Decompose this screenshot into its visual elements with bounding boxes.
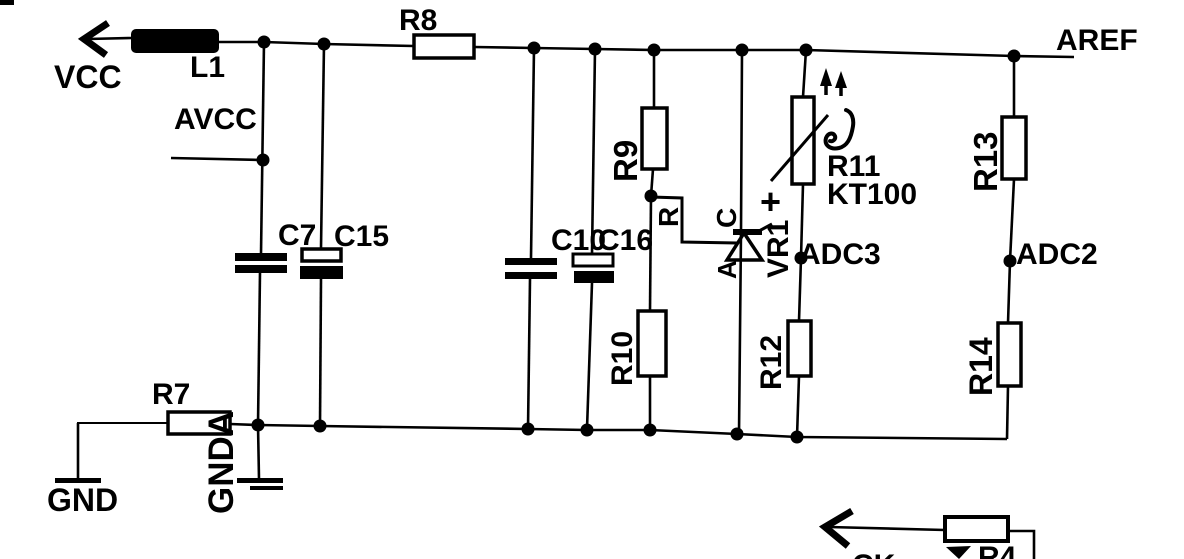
svg-text:GNDA: GNDA [202,411,241,514]
svg-text:KT100: KT100 [827,178,917,211]
svg-text:+: + [760,181,781,222]
svg-text:AVCC: AVCC [174,103,257,136]
svg-text:AREF: AREF [1056,24,1138,57]
svg-text:C16: C16 [598,224,653,257]
svg-text:R8: R8 [399,4,437,37]
svg-text:R10: R10 [606,331,639,386]
svg-text:VR1: VR1 [762,220,795,278]
svg-text:R14: R14 [963,337,999,396]
svg-text:C: C [711,208,742,228]
svg-text:C7: C7 [278,219,316,252]
svg-text:GND: GND [47,482,118,518]
svg-text:A: A [712,260,742,279]
svg-text:CK: CK [852,549,896,559]
svg-text:ADC3: ADC3 [799,238,881,271]
svg-text:R9: R9 [607,140,644,182]
svg-text:R12: R12 [755,335,788,390]
svg-text:C15: C15 [334,220,389,253]
svg-text:L1: L1 [190,51,225,84]
svg-text:R13: R13 [967,131,1004,192]
svg-text:ADC2: ADC2 [1016,238,1098,271]
svg-text:R: R [653,207,684,227]
svg-text:R4: R4 [978,541,1017,559]
svg-text:VCC: VCC [54,59,122,95]
svg-text:R7: R7 [152,378,190,411]
